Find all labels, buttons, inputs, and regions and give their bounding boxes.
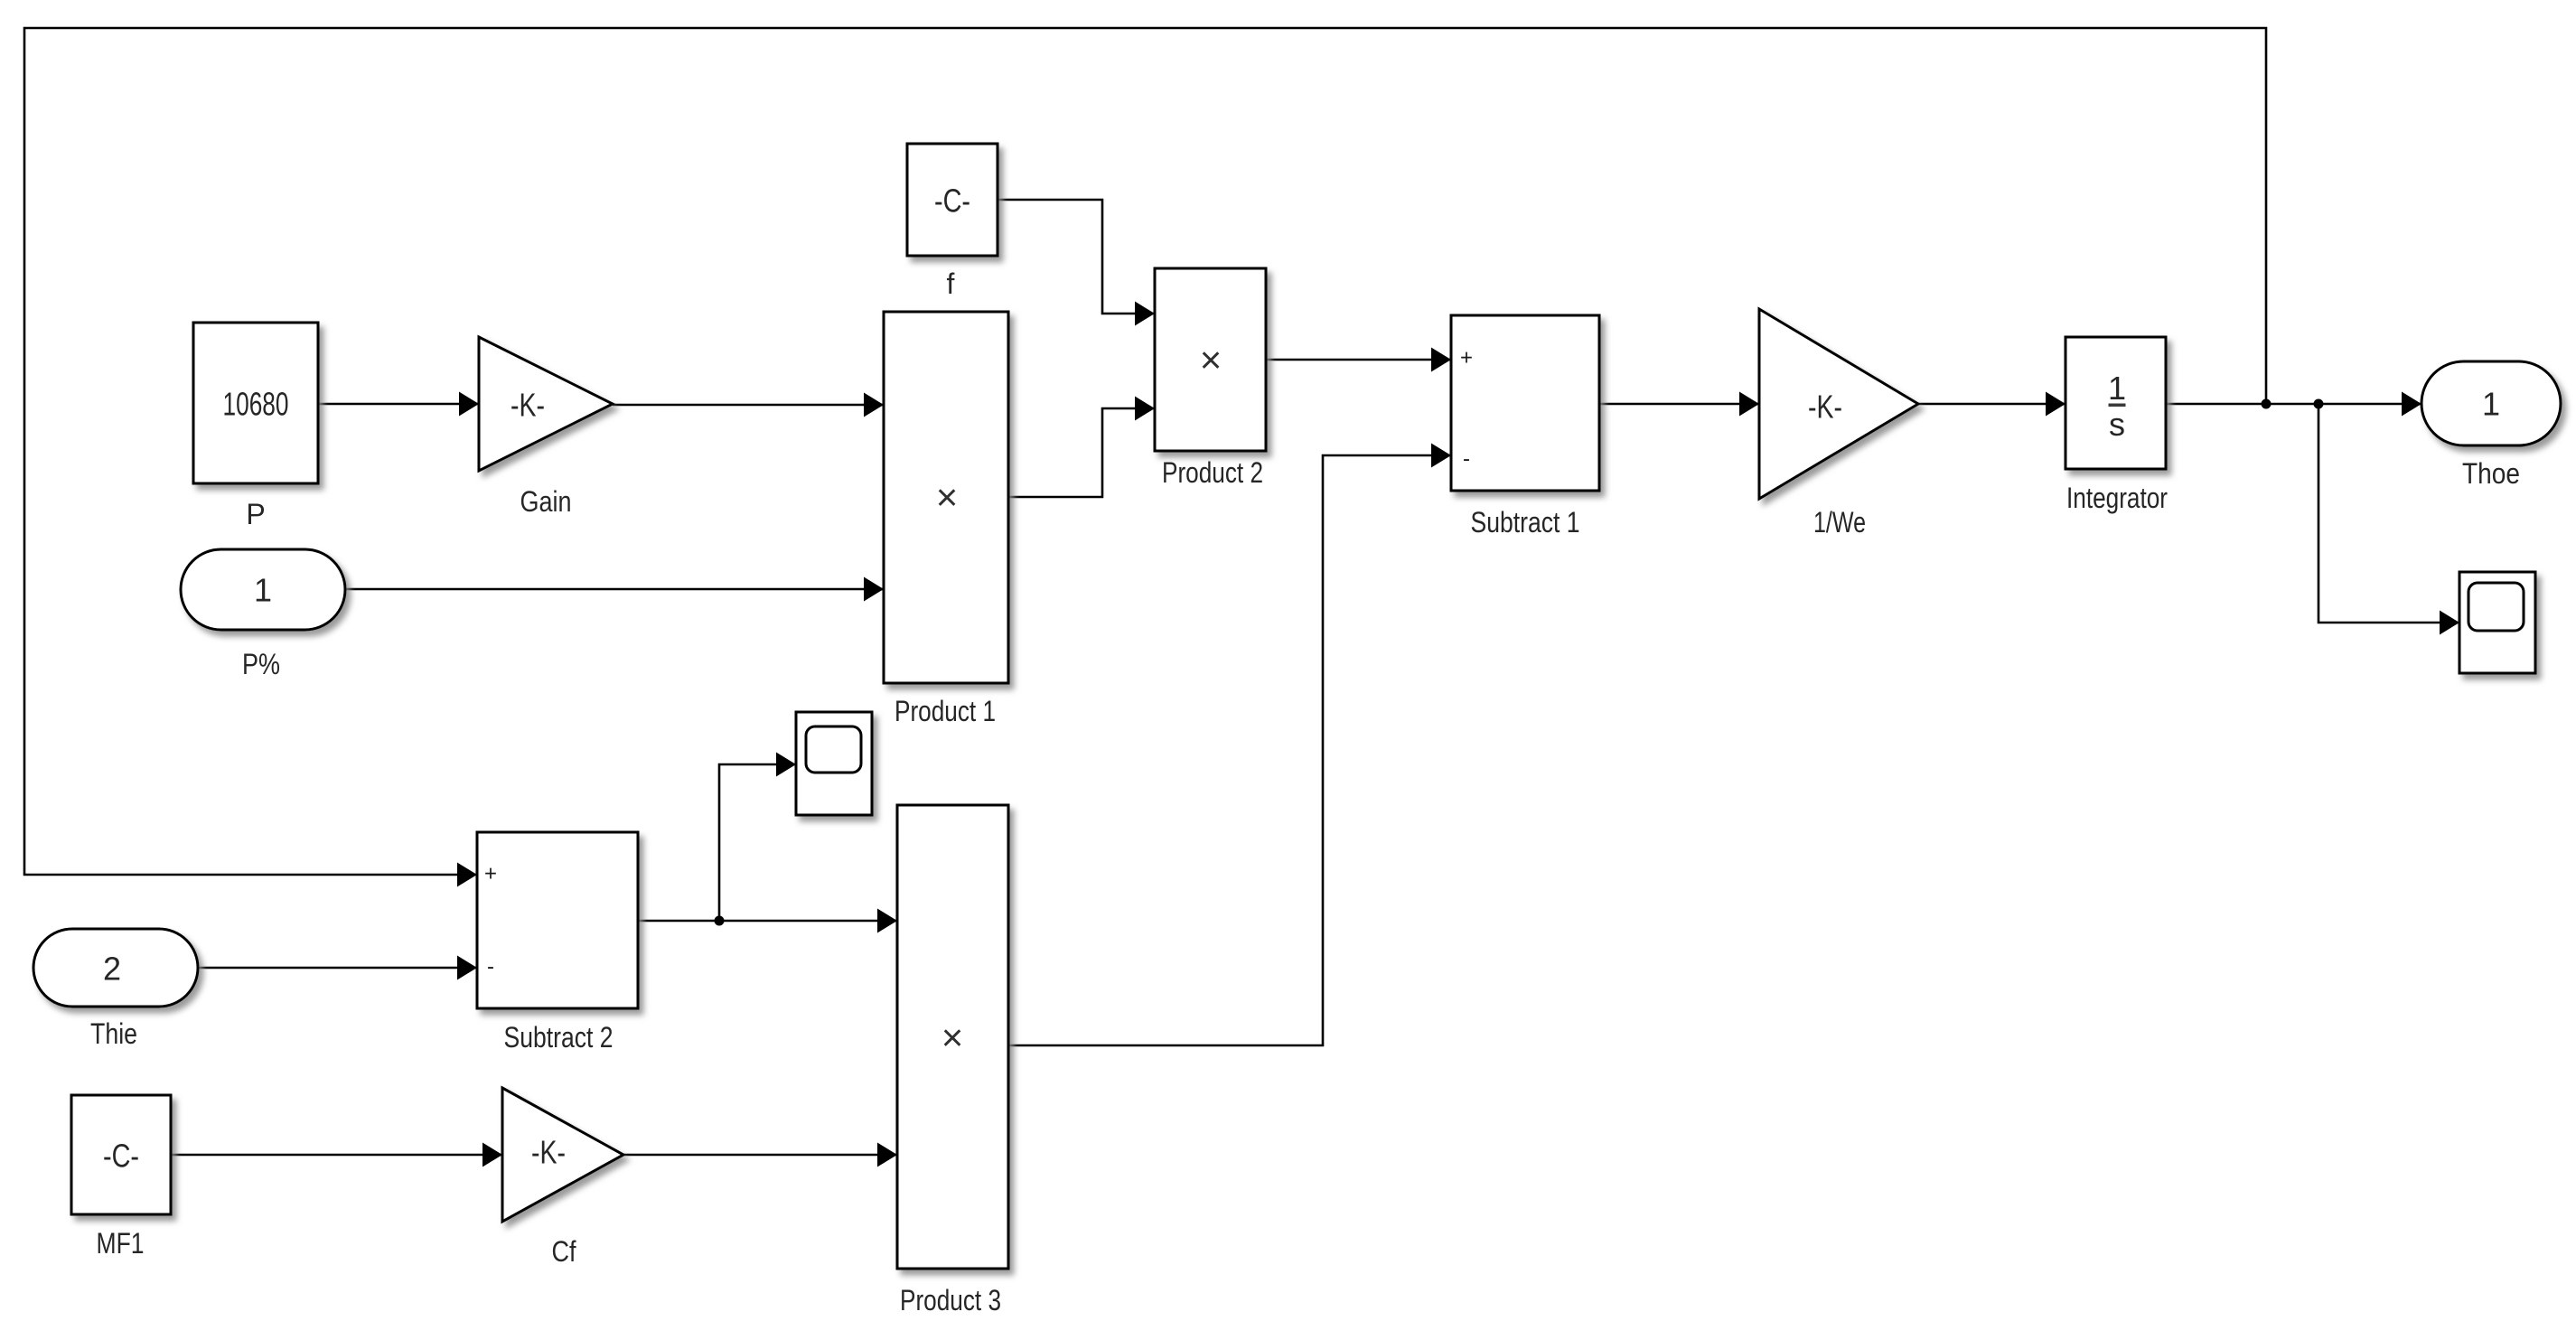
svg-text:2: 2: [103, 951, 121, 988]
svg-text:-K-: -K-: [1808, 389, 1842, 426]
svg-text:+: +: [1460, 346, 1473, 370]
svg-text:Product 1: Product 1: [895, 695, 996, 727]
svg-text:-C-: -C-: [103, 1138, 139, 1175]
svg-text:Cf: Cf: [552, 1235, 576, 1268]
svg-text:1: 1: [254, 572, 272, 609]
svg-text:f: f: [947, 267, 955, 300]
svg-text:-K-: -K-: [511, 387, 545, 424]
svg-text:1: 1: [2482, 386, 2500, 423]
svg-text:s: s: [2109, 406, 2125, 443]
svg-text:Gain: Gain: [520, 485, 572, 518]
svg-text:-K-: -K-: [531, 1134, 566, 1171]
svg-text:Thoe: Thoe: [2462, 457, 2520, 490]
svg-text:Product 3: Product 3: [900, 1284, 1001, 1316]
svg-text:Product 2: Product 2: [1162, 456, 1263, 489]
svg-text:-: -: [1463, 447, 1470, 472]
svg-text:P: P: [246, 498, 265, 530]
svg-text:-C-: -C-: [934, 183, 970, 220]
svg-text:Subtract 1: Subtract 1: [1471, 506, 1580, 539]
svg-text:Thie: Thie: [90, 1017, 137, 1050]
svg-text:×: ×: [941, 1017, 964, 1059]
svg-text:Subtract 2: Subtract 2: [504, 1021, 614, 1054]
svg-text:×: ×: [1200, 339, 1222, 381]
svg-text:Integrator: Integrator: [2066, 482, 2168, 514]
svg-text:-: -: [487, 955, 494, 979]
svg-text:P%: P%: [242, 648, 280, 680]
svg-text:1: 1: [2108, 370, 2126, 407]
svg-text:10680: 10680: [223, 386, 289, 423]
svg-text:×: ×: [936, 476, 959, 519]
svg-text:1/We: 1/We: [1813, 506, 1866, 539]
svg-text:MF1: MF1: [97, 1227, 145, 1260]
svg-text:+: +: [484, 862, 497, 886]
